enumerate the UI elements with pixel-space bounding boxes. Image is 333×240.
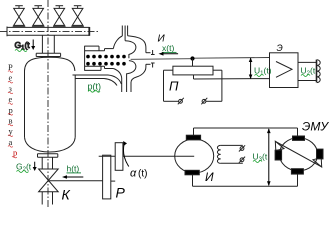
rod guide wall ticks bbox=[151, 50, 155, 68]
svg-text:U3(t: U3(t bbox=[253, 152, 268, 164]
sensor membrane capsule U (measuring unit) bbox=[113, 26, 150, 93]
label P (potentiometer) bbox=[169, 79, 179, 94]
pipe pressure tap p(t) from tank bbox=[73, 75, 122, 86]
svg-text:К: К bbox=[62, 186, 71, 202]
wire E outputs to control winding bbox=[298, 62, 317, 80]
reducer R gearbox bbox=[99, 143, 123, 199]
EMU machine amplifier bbox=[275, 136, 323, 174]
svg-text:И: И bbox=[205, 170, 214, 184]
label h(t) with arrow bbox=[62, 164, 83, 179]
svg-text:P: P bbox=[116, 185, 126, 201]
valve K bbox=[39, 169, 59, 205]
svg-text:(t): (t) bbox=[138, 169, 147, 180]
label R (reducer) bbox=[116, 185, 126, 201]
label I (sensor) bbox=[158, 33, 166, 44]
valve V1 bbox=[13, 6, 26, 27]
tank bottom flange bbox=[38, 154, 58, 157]
wire manifold pipe bbox=[0, 27, 98, 37]
potentiometer P bbox=[164, 56, 270, 104]
amplifier E box bbox=[270, 53, 299, 88]
valve V3 bbox=[53, 6, 66, 27]
label E (amplifier) bbox=[277, 43, 283, 53]
svg-text:Э: Э bbox=[277, 43, 283, 53]
svg-text:x(t): x(t) bbox=[162, 43, 174, 53]
wire mechanical link valve-reducer bbox=[49, 180, 103, 182]
shaft motor to reducer bbox=[123, 155, 177, 157]
svg-text:U2(t: U2(t bbox=[301, 66, 316, 78]
svg-text:α: α bbox=[130, 168, 137, 180]
tank reservoir body bbox=[25, 57, 76, 152]
label K (valve) bbox=[62, 186, 71, 202]
sensor perforated damper tube bbox=[85, 46, 114, 71]
label U1(t) with arrow bbox=[249, 58, 272, 80]
svg-text:G2(t: G2(t bbox=[16, 162, 32, 174]
inductor motor field winding bbox=[217, 145, 245, 163]
label U3(t) with arrow bbox=[253, 128, 271, 186]
tank top flange bbox=[36, 53, 60, 56]
inductor EMU control winding bbox=[317, 60, 321, 83]
label x(t) with arrow bbox=[159, 43, 179, 56]
svg-text:p(t): p(t) bbox=[88, 81, 102, 91]
valve V2 bbox=[32, 6, 45, 27]
svg-text:h(t): h(t) bbox=[67, 164, 80, 174]
label G1(t) inflow bbox=[15, 40, 36, 52]
rod x(t) from capsule bbox=[131, 58, 270, 60]
pipe tank inlet neck bbox=[42, 35, 54, 53]
label G2(t) outflow bbox=[16, 162, 37, 174]
label EMU bbox=[302, 120, 329, 134]
label I (motor) bbox=[205, 170, 214, 184]
svg-text:П: П bbox=[169, 79, 179, 94]
motor I armature bbox=[175, 135, 214, 175]
wire armature circuit top bbox=[194, 128, 298, 136]
label Reservoir vertical text bbox=[8, 62, 17, 158]
sensor tube perforation dots bbox=[86, 55, 126, 66]
label alpha(t) rotation arrow bbox=[123, 141, 147, 180]
label U2(t) bbox=[301, 66, 316, 78]
wire armature circuit bottom bbox=[193, 174, 298, 186]
label p(t) bbox=[88, 81, 102, 92]
wire main vertical dash-dot axis bbox=[47, 0, 49, 207]
valve V4 bbox=[71, 6, 84, 27]
svg-text:ЭМУ: ЭМУ bbox=[302, 120, 329, 134]
pipe outlet to valve K bbox=[42, 157, 52, 169]
